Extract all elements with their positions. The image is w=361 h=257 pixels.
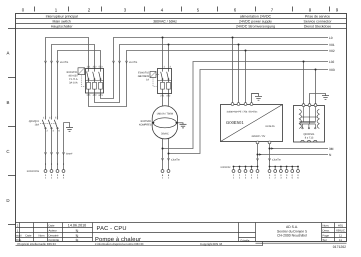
wire F02 pin 4T2 to motor [168, 94, 170, 107]
svg-text:xJunTm: xJunTm [171, 158, 180, 161]
entry wire L1 [45, 129, 47, 170]
junction dots [162, 37, 317, 168]
cable chevrons motor wires [161, 158, 169, 160]
switch pin numbers [43, 117, 61, 133]
title block lines [16, 223, 347, 246]
svg-text:C: C [6, 149, 9, 154]
svg-text:Auteur: Auteur [49, 229, 57, 233]
socket winding symbols [299, 107, 319, 143]
PSU PE earth [252, 94, 263, 103]
svg-text:Page: Page [323, 233, 330, 237]
svg-text:xJunTm: xJunTm [272, 159, 281, 162]
svg-text:4T2: 4T2 [166, 94, 171, 97]
ground at switch PEN [66, 128, 73, 132]
svg-text:D: D [6, 198, 9, 203]
right strip numbers [269, 174, 300, 179]
svg-text:4mm²: 4mm² [66, 153, 73, 156]
field values [336, 224, 345, 243]
svg-text:16A: 16A [35, 124, 40, 127]
left strip numbers [233, 174, 259, 179]
svg-text:Propriété intellectuelle DIN 3: Propriété intellectuelle DIN 34 [18, 242, 57, 246]
svg-text:3x380+N0+PE / 750 / E0+E0n: 3x380+N0+PE / 750 / E0+E0n [227, 111, 259, 114]
svg-text:Sur: Sur [323, 238, 327, 242]
field labels [323, 224, 330, 243]
wire drop bus L2 to F02 pin 3 [168, 45, 170, 69]
svg-text:Main switch: Main switch [53, 20, 71, 24]
breaker F01 pin labels top [87, 66, 104, 69]
svg-text:G00E501: G00E501 [226, 120, 244, 125]
svg-text:Nom: Nom [39, 233, 46, 237]
entry wire L2 [51, 129, 53, 170]
wire drop bus L1 to PSU terminal 1 [232, 38, 234, 104]
socket earth [322, 96, 329, 100]
stubs left bar to terminals [234, 167, 258, 170]
svg-text:CH-2000 Neuchâtel: CH-2000 Neuchâtel [277, 234, 307, 238]
wire loop inner to socket line V03 [169, 70, 329, 154]
svg-text:6L/6L06: 6L/6L06 [266, 125, 276, 128]
cable chevrons entry wires [44, 152, 64, 154]
wire drop bus L2 to PSU terminal 2 [238, 45, 240, 104]
motor earth [177, 123, 187, 128]
svg-text:Dienst Steckdose: Dienst Steckdose [304, 24, 331, 28]
copyright texts [18, 242, 223, 246]
svg-text:24VDC / 0V: 24VDC / 0V [252, 135, 266, 138]
svg-text:Dessiné: Dessiné [49, 233, 60, 237]
switch Q00 link dashed [40, 123, 57, 125]
motor inner ellipse [153, 118, 176, 128]
svg-text:3A-10A: 3A-10A [69, 82, 78, 85]
svg-text:B: B [7, 100, 10, 105]
entry terminal numbers below [45, 174, 65, 179]
wire F01 pin 6T3 to bus L1 riser [101, 38, 329, 99]
cable chevrons PSU outputs [256, 158, 270, 160]
svg-text:E00X002: E00X002 [221, 166, 232, 169]
cable chevrons F01 risers [112, 61, 127, 63]
svg-text:4T2: 4T2 [93, 94, 98, 97]
switch Q00 label [28, 120, 40, 127]
svg-text:699UC: 699UC [336, 229, 345, 233]
breaker F01 overload elements [87, 82, 103, 89]
wire PSU output 0V down [269, 143, 271, 167]
stubs right bar to terminals [270, 167, 299, 170]
arrow PSU 24VDC branch [259, 153, 261, 155]
wire drop bus L3 to PSU terminal 3 [245, 51, 247, 104]
svg-text:PAC - CPU: PAC - CPU [97, 226, 127, 232]
PSU output terminals [256, 141, 271, 144]
breaker F02 contacts [161, 69, 169, 94]
title block small texts [16, 224, 250, 243]
svg-text:Num.: Num. [323, 224, 330, 228]
svg-text:alimentation 24VDC: alimentation 24VDC [240, 15, 272, 19]
svg-text:1A: 1A [146, 79, 149, 82]
wire PSU 0V branch to right [270, 148, 329, 150]
wire F01 pin 4T2 to bus L2 riser [95, 45, 329, 103]
svg-text:6T3: 6T3 [99, 94, 104, 97]
svg-text:V03: V03 [329, 68, 335, 72]
column ruler numbers [22, 7, 339, 12]
wire F01 pin 2T1 to bus L3 riser [89, 51, 329, 107]
company address [277, 225, 307, 237]
svg-text:xLinTm: xLinTm [129, 61, 137, 64]
svg-text:380VAC / 50Hz: 380VAC / 50Hz [153, 20, 177, 24]
header text row 3 [51, 24, 331, 28]
svg-text:0171202: 0171202 [333, 245, 346, 249]
PSU input terminals [231, 103, 253, 106]
wire socket PE to earth [310, 94, 326, 106]
wire PSU output 24VDC down [257, 143, 259, 167]
wire socket drop N [315, 70, 317, 106]
wire motor bottom 1 to terminal [162, 139, 164, 170]
svg-text:V02: V02 [329, 49, 335, 53]
wire drop bus L1 to F02 pin 1 [162, 38, 164, 69]
svg-text:Prise de service: Prise de service [305, 15, 330, 19]
cable chevrons switch feed wires [44, 61, 58, 63]
motor compressor body [152, 106, 177, 139]
svg-text:Dess.: Dess. [323, 229, 330, 233]
svg-text:Hauptschalter: Hauptschalter [51, 24, 73, 28]
header row lines [16, 19, 347, 29]
wire F02 pin 2T1 to motor [162, 94, 164, 107]
svg-text:8 x T13: 8 x T13 [305, 137, 314, 140]
svg-text:2T1: 2T1 [87, 94, 92, 97]
left strip terminals [232, 170, 259, 173]
row letters [6, 51, 9, 203]
breaker F01 label [67, 71, 78, 85]
PSU diagonal [221, 105, 283, 142]
PEN earth elbow [64, 123, 70, 128]
breaker F01 contacts [87, 69, 101, 94]
wire socket drop L [303, 62, 305, 106]
svg-text:14.06.2010: 14.06.2010 [68, 224, 86, 228]
wire loop outer to socket line L02 [163, 62, 329, 149]
svg-text:KOMPRES: KOMPRES [139, 124, 152, 127]
entry wire L3 [57, 129, 59, 170]
svg-text:11: 11 [339, 233, 342, 237]
svg-text:L0: L0 [329, 36, 333, 40]
socket top pins [302, 104, 317, 107]
arrow PSU 0V branch [271, 147, 273, 149]
motor terminals [161, 170, 170, 173]
svg-text:2T1: 2T1 [160, 94, 165, 97]
wire L2 switch to breaker F01 pin 3L2 [52, 45, 95, 117]
column ruler ticks [35, 7, 330, 12]
svg-text:fg: fg [76, 229, 79, 233]
entry terminals X00 [44, 170, 65, 173]
svg-text:400-630: 400-630 [68, 74, 78, 77]
svg-text:fg: fg [76, 238, 79, 242]
wire motor bottom 2 to terminal [168, 138, 170, 169]
service socket X501 box [294, 106, 325, 143]
wire L3 switch to breaker F01 pin 5L3 [58, 51, 101, 117]
svg-text:28VAC: 28VAC [161, 133, 169, 136]
motor label [139, 120, 152, 127]
breaker F02 pin labels [160, 66, 171, 98]
svg-text:Service connector: Service connector [303, 20, 332, 24]
wire PSU 24VDC branch to right [258, 154, 329, 156]
breaker F02 section line [158, 80, 172, 82]
breaker F02 label [138, 72, 150, 82]
breaker F01 section line [86, 80, 104, 82]
breaker F01 operator square [78, 68, 85, 75]
svg-text:Date: Date [26, 233, 32, 237]
svg-text:Copyright DIN 34: Copyright DIN 34 [200, 242, 223, 246]
svg-text:Echelle: Echelle [241, 239, 250, 242]
terminal bar right group [270, 166, 299, 168]
svg-text:E00X00/TB: E00X00/TB [27, 170, 40, 173]
svg-text:GB2CB05: GB2CB05 [138, 75, 150, 78]
svg-text:Date: Date [49, 224, 55, 228]
svg-text:L02: L02 [329, 60, 335, 64]
svg-text:24VDC Stromversorgung: 24VDC Stromversorgung [236, 24, 275, 28]
svg-text:fg: fg [76, 233, 79, 237]
terminal bar left group [234, 166, 258, 168]
row boundary ticks [8, 29, 16, 225]
svg-text:3M: 3M [329, 147, 334, 151]
motor node dots [152, 122, 154, 124]
svg-text:F1-7LA: F1-7LA [69, 78, 78, 81]
net labels right edge [329, 36, 335, 157]
svg-text:xLinTm: xLinTm [60, 61, 68, 64]
svg-text:11: 11 [339, 238, 342, 242]
svg-text:Interrupteur principal: Interrupteur principal [46, 15, 78, 19]
right strip terminals [268, 170, 299, 173]
entry wire PEN [63, 123, 65, 170]
wire L1 switch to breaker F01 pin 1L1 [46, 38, 89, 117]
entry terminal numbers above [45, 163, 65, 166]
breaker F01 box [86, 69, 104, 94]
main switch Q00 contacts [42, 116, 58, 129]
breaker F02 operator square [150, 72, 156, 78]
svg-text:24VDC power supply: 24VDC power supply [239, 20, 272, 24]
breaker F01 pin labels bottom [87, 94, 104, 97]
breaker F02 box [158, 69, 172, 94]
svg-text:L'information d'après la norme: L'information d'après la norme DIN 34 [95, 242, 144, 246]
svg-text:E000/F02: E000/F02 [138, 72, 149, 75]
header text row 2 [53, 20, 333, 24]
svg-text:A: A [7, 51, 10, 56]
svg-text:E000/F01: E000/F01 [67, 71, 78, 74]
svg-text:Modif: Modif [16, 234, 22, 237]
breaker F02 overload elements [161, 82, 171, 89]
motor terminal numbers [162, 174, 170, 179]
PSU G00E501 box [221, 105, 283, 142]
svg-text:H01: H01 [338, 224, 344, 228]
svg-text:LM10A / 780W: LM10A / 780W [157, 113, 174, 116]
svg-text:Q00X501: Q00X501 [304, 133, 316, 136]
header text row 1 [46, 15, 330, 19]
svg-text:V01: V01 [329, 43, 335, 47]
